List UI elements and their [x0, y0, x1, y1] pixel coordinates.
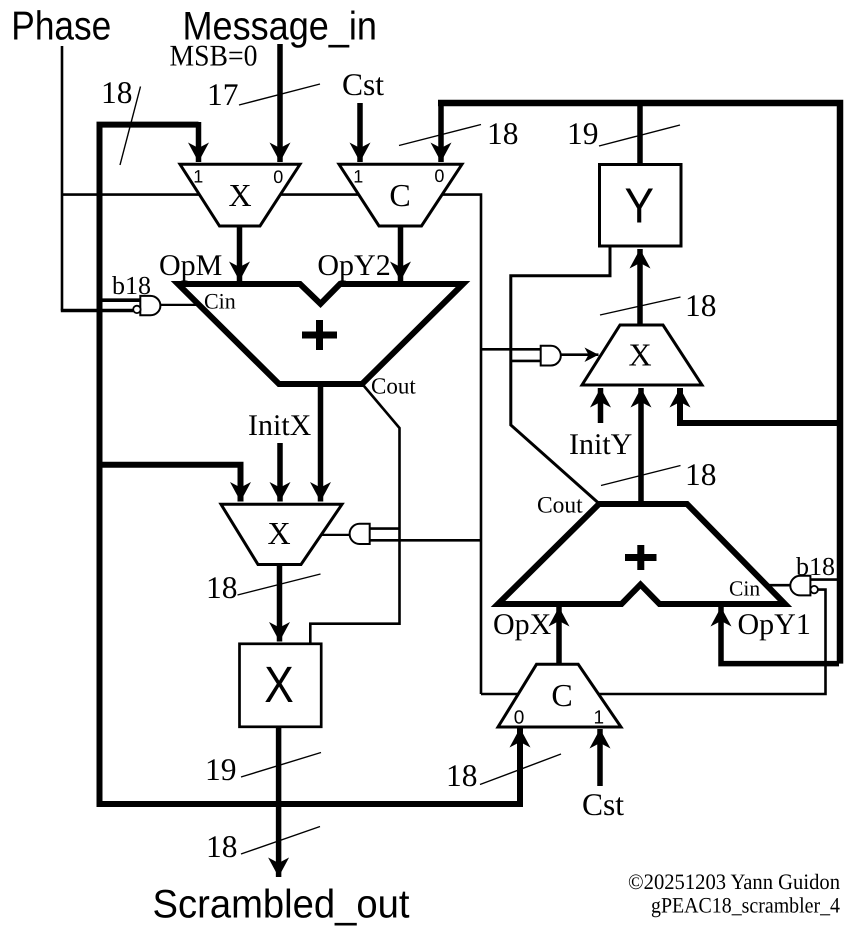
- wire adder A1 Cout down to register X top: [310, 383, 399, 644]
- wire right bus to gate b18R upper input: [810, 578, 838, 581]
- svg-text:InitY: InitY: [569, 428, 632, 461]
- gate b18L: [140, 296, 160, 315]
- wire adder A2 sum to mux X3: [638, 388, 644, 504]
- slash bus 18 feedback to C2: [480, 754, 561, 785]
- svg-text:C: C: [389, 177, 410, 213]
- wire OpY1 from right bus to adder A2: [721, 607, 839, 664]
- wire gate b18R output to adder A2 Cin: [766, 584, 791, 587]
- svg-text:0: 0: [273, 167, 283, 187]
- adder A2: [498, 504, 785, 604]
- wire select line mux C1 to lower muxes riser: [442, 195, 482, 694]
- svg-text:Cst: Cst: [342, 67, 384, 102]
- wire right bus tap to mux X3 right input: [680, 388, 839, 423]
- svg-text:b18: b18: [112, 271, 151, 300]
- wire Y output top bus: [438, 103, 840, 664]
- svg-text:Cin: Cin: [204, 289, 236, 314]
- adder A1: [178, 284, 463, 384]
- svg-text:X: X: [228, 177, 251, 213]
- svg-text:18: 18: [446, 758, 478, 793]
- svg-text:gPEAC18_scrambler_4: gPEAC18_scrambler_4: [651, 893, 840, 918]
- svg-text:Cout: Cout: [371, 374, 416, 399]
- mux C1: [339, 164, 462, 226]
- adder A1 plus sign: [302, 320, 337, 350]
- wire top bus into register Y: [637, 103, 643, 164]
- slash bus 18 adder A2 out: [601, 466, 681, 486]
- slash bus 18 scrambled out: [241, 827, 320, 855]
- wire OpX mux C2 to adder A2: [556, 607, 562, 664]
- svg-text:0: 0: [514, 708, 525, 729]
- wire Message_in into mux X1 input 0: [277, 44, 283, 162]
- slash bus 19 register X out: [241, 753, 321, 778]
- wire InitX into mux X2: [277, 443, 283, 502]
- wire select riser to gate G2 upper input: [481, 348, 541, 351]
- wire Phase vertical: [61, 46, 64, 311]
- svg-text:Cin: Cin: [729, 577, 760, 601]
- wire gate b18L output to adder A1 Cin: [160, 304, 200, 306]
- svg-text:InitX: InitX: [248, 409, 312, 442]
- slash bus 18 mux X2 out: [238, 574, 321, 595]
- gate G1: [350, 524, 370, 544]
- gate b18L bubble: [133, 306, 140, 313]
- wire register X output to Scrambled_out: [276, 727, 282, 877]
- wire select line mux X1 to mux C1: [280, 193, 359, 196]
- svg-text:19: 19: [205, 752, 237, 787]
- register Y: [600, 165, 682, 247]
- wire gate b18L bus tap input: [100, 298, 141, 302]
- wire register Y bottom tap to adder A2 Cout corner: [511, 246, 610, 504]
- svg-text:19: 19: [567, 116, 599, 151]
- svg-text:X: X: [264, 656, 294, 713]
- svg-text:18: 18: [206, 570, 238, 605]
- slash bus 17: [239, 84, 320, 105]
- wire select line to mux X1: [62, 193, 200, 196]
- mux C2: [498, 664, 621, 727]
- svg-text:1: 1: [353, 167, 363, 187]
- svg-text:b18: b18: [796, 552, 835, 581]
- svg-text:Cst: Cst: [582, 787, 624, 822]
- svg-text:OpY1: OpY1: [738, 608, 811, 641]
- gate G2: [541, 346, 561, 366]
- mux X1: [180, 164, 300, 226]
- wire select line mux C2 to gate b18R: [599, 590, 826, 694]
- slash bus 18 mux X3 out: [600, 297, 681, 315]
- mux X2: [221, 504, 342, 564]
- svg-text:18: 18: [685, 457, 717, 492]
- wire Phase to gate b18L inverted input: [61, 309, 133, 313]
- svg-text:18: 18: [685, 288, 717, 323]
- svg-text:18: 18: [206, 829, 238, 864]
- wire InitY into mux X3: [598, 388, 604, 423]
- svg-text:1: 1: [594, 708, 605, 729]
- svg-text:MSB=0: MSB=0: [170, 39, 258, 72]
- slash bus 18 mux C1: [399, 125, 481, 146]
- wire gate G1 output to mux X2: [320, 534, 350, 536]
- wire 18-bit feedback bus left: [100, 125, 521, 804]
- wire Cout1 line to gate G1 upper input: [370, 527, 400, 530]
- wire gate G2 output arrow into mux X3: [561, 353, 599, 356]
- slash bus 18 top-left: [120, 87, 141, 166]
- svg-text:X: X: [267, 515, 290, 551]
- adder A2 plus sign: [625, 545, 657, 570]
- svg-text:18: 18: [487, 116, 519, 151]
- wire top bus into mux C1 input 0: [438, 106, 444, 162]
- svg-text:X: X: [628, 337, 651, 373]
- gate b18R: [790, 576, 810, 596]
- wire select line to mux C2: [481, 693, 518, 696]
- svg-text:Cout: Cout: [537, 493, 583, 519]
- svg-text:Y: Y: [624, 179, 654, 234]
- slash bus 19 Y input: [599, 125, 680, 146]
- wire bus tap to mux X2 left input: [100, 465, 241, 502]
- wire OpM mux X1 to adder A1: [237, 226, 243, 281]
- wire Cst into mux C1 input 1: [357, 103, 363, 162]
- svg-text:C: C: [551, 677, 572, 713]
- svg-text:18: 18: [101, 75, 133, 110]
- wire select riser to gate G1 lower input: [370, 539, 481, 542]
- wire mux X3 output to register Y: [637, 249, 643, 325]
- svg-text:17: 17: [207, 77, 239, 112]
- svg-text:0: 0: [434, 166, 444, 186]
- wire Cst into mux C2 input 1: [597, 729, 603, 786]
- svg-text:Phase: Phase: [11, 3, 111, 49]
- wire Y tap to gate G2 lower input: [511, 360, 541, 363]
- wire OpY2 mux C1 to adder A1: [398, 226, 404, 281]
- wire mux X2 output to register X: [277, 564, 283, 642]
- svg-text:1: 1: [193, 167, 203, 187]
- gate b18R bubble: [811, 586, 818, 593]
- svg-text:Scrambled_out: Scrambled_out: [153, 883, 410, 927]
- svg-text:OpY2: OpY2: [317, 249, 390, 282]
- register X: [240, 644, 322, 727]
- svg-text:©20251203 Yann Guidon: ©20251203 Yann Guidon: [628, 869, 840, 894]
- mux X3: [582, 325, 702, 385]
- svg-text:OpX: OpX: [493, 608, 552, 641]
- wire bus into mux X1 input 1: [196, 122, 202, 162]
- svg-text:OpM: OpM: [159, 249, 222, 282]
- wire adder A1 sum to mux X2: [318, 384, 324, 502]
